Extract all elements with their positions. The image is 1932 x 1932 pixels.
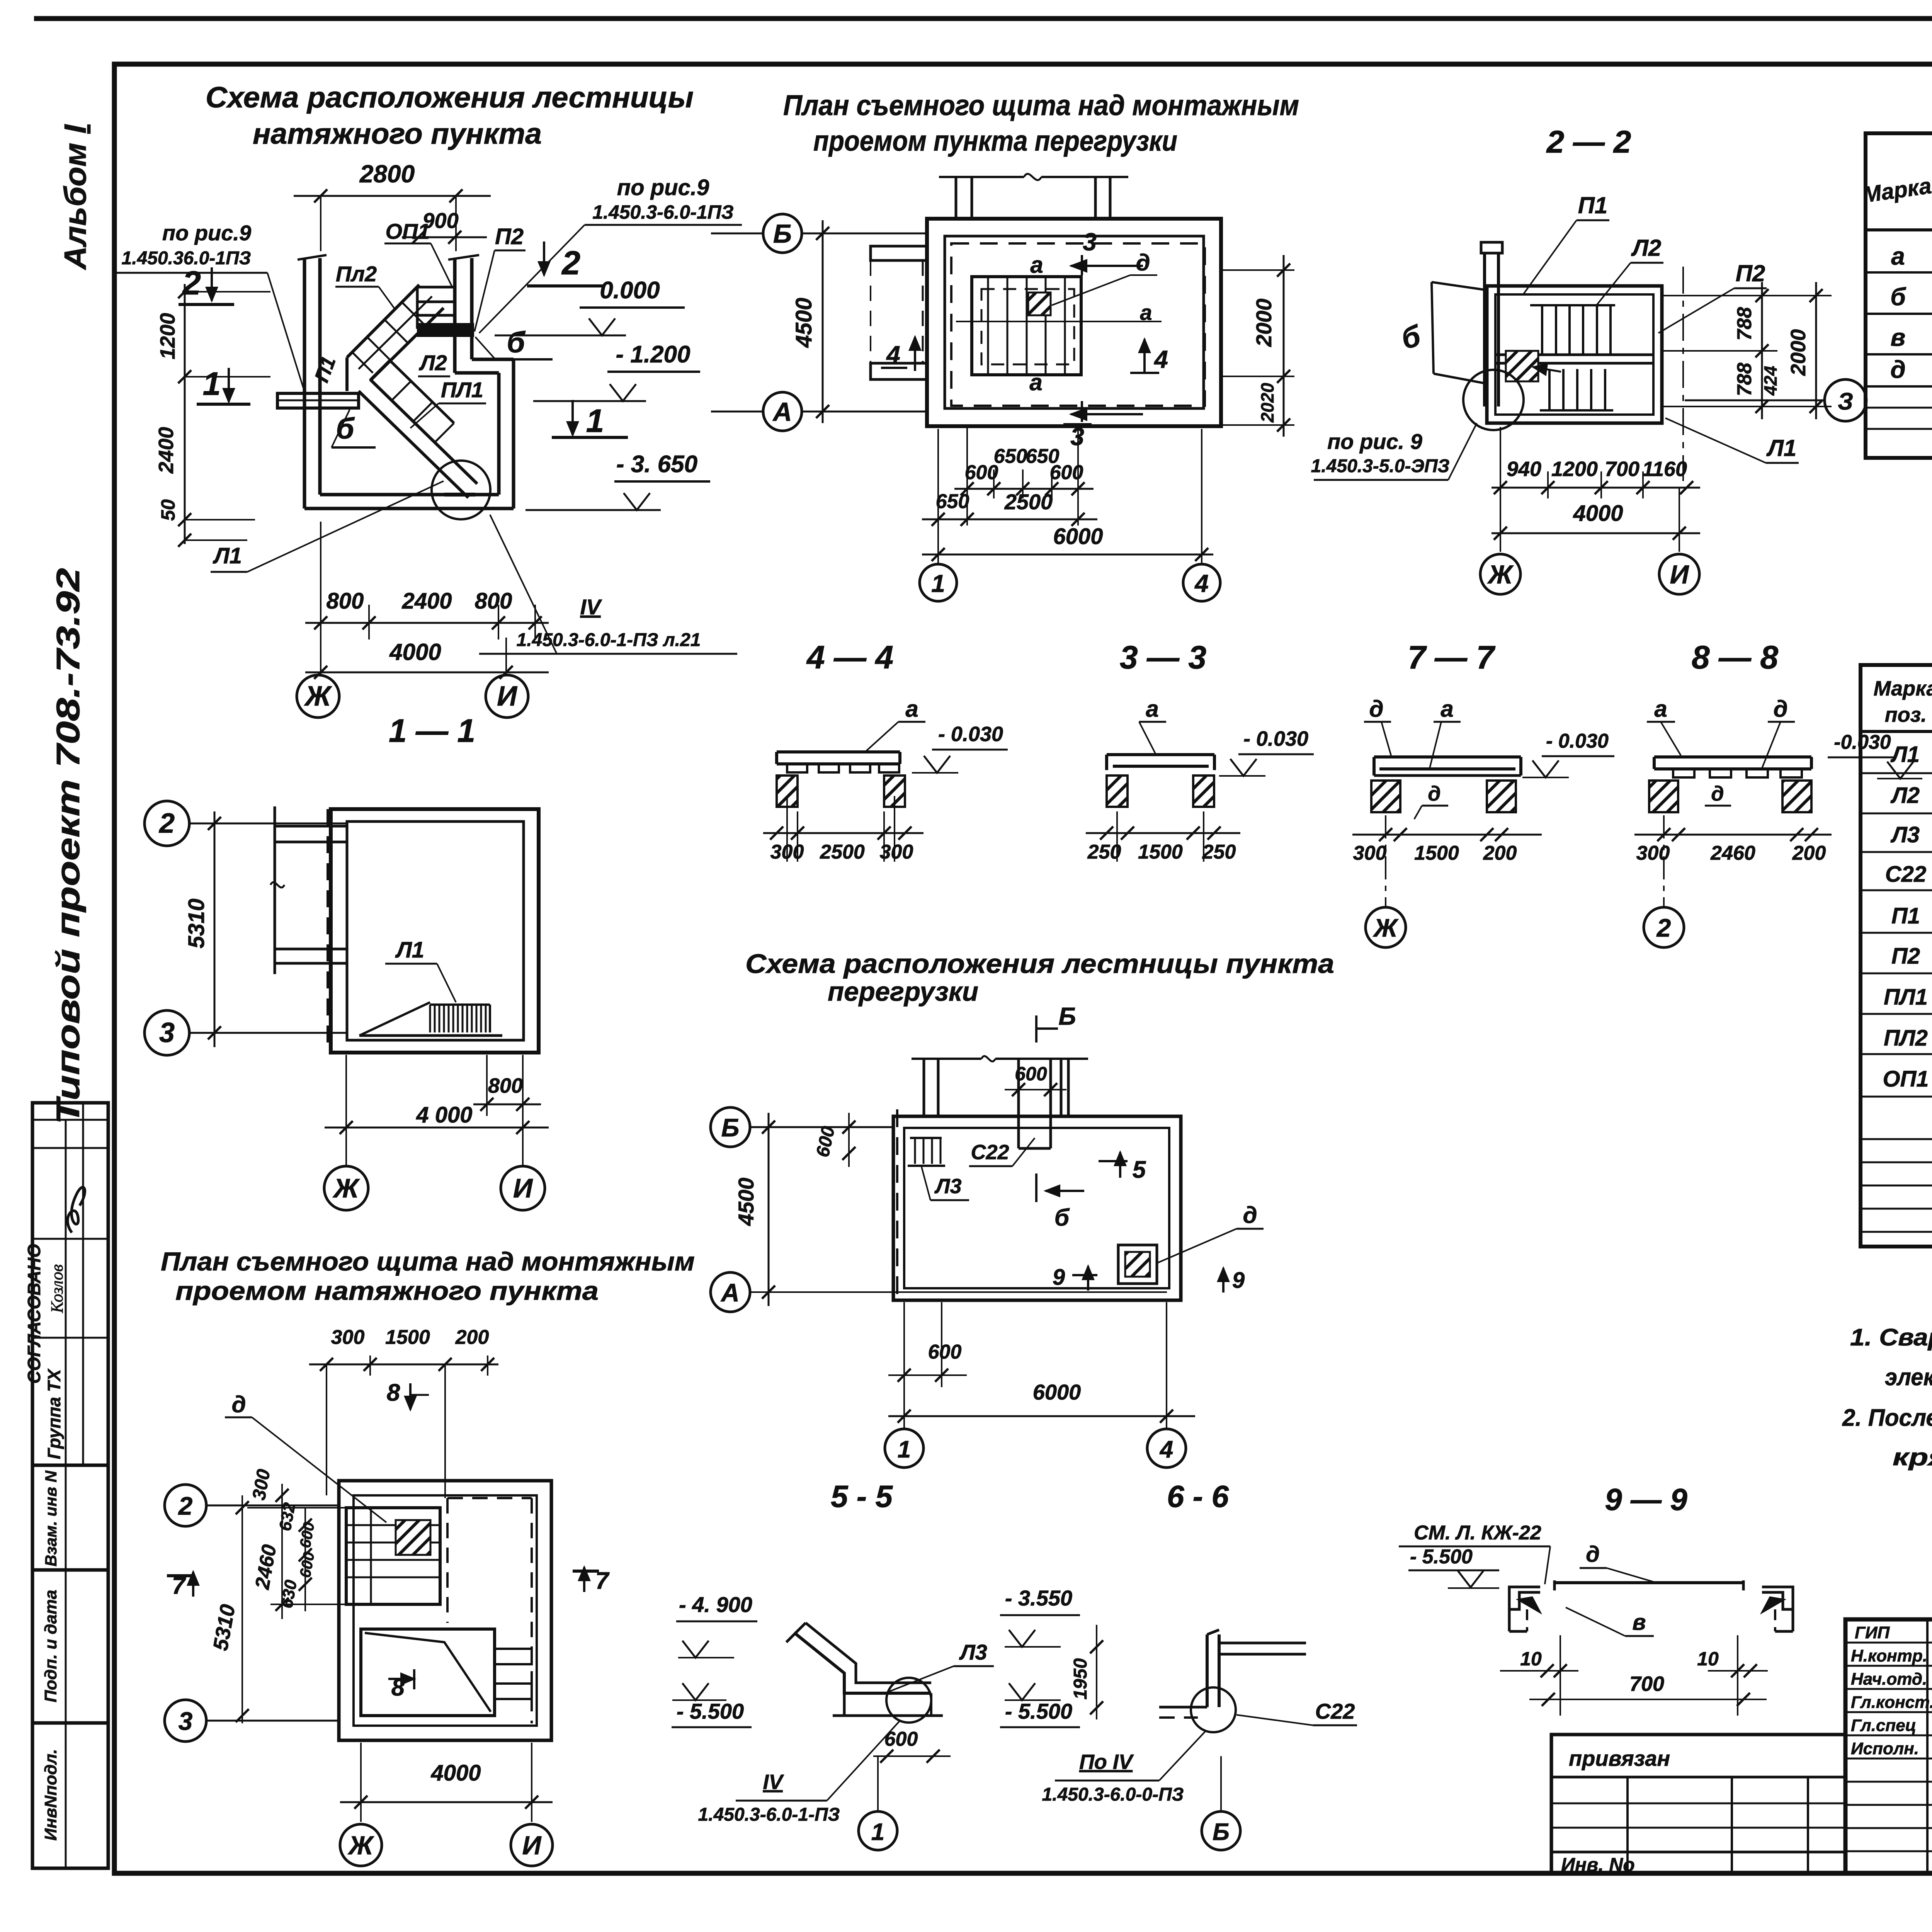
svg-text:IV: IV — [580, 595, 603, 619]
title block left rows — [1845, 1642, 1932, 1644]
table 1 frame — [1866, 133, 1932, 458]
svg-text:2020: 2020 — [1257, 383, 1277, 423]
5-5 detail drawing — [794, 1633, 931, 1693]
svg-text:Н.контр.: Н.контр. — [1851, 1646, 1927, 1665]
svg-text:перегрузки: перегрузки — [828, 976, 978, 1007]
svg-text:Нач.отд.: Нач.отд. — [1851, 1670, 1927, 1689]
svg-text:И: И — [497, 681, 518, 712]
svg-text:по рис.9: по рис.9 — [617, 175, 709, 200]
drawing C axis circle 4 — [1147, 1429, 1186, 1468]
svg-text:2000: 2000 — [1252, 299, 1276, 347]
dim 4500 left of plan — [822, 220, 824, 423]
9-9 right bracket support — [1762, 1587, 1793, 1609]
svg-text:- 5.500: - 5.500 — [677, 1699, 744, 1723]
svg-text:Л2: Л2 — [1631, 235, 1662, 261]
drawing C top columns — [923, 1060, 925, 1116]
svg-text:СМ. Л. КЖ-22: СМ. Л. КЖ-22 — [1414, 1522, 1541, 1544]
axis Б circle and line — [763, 214, 802, 253]
svg-text:Б: Б — [1058, 1002, 1076, 1030]
svg-text:проемом натяжного пункта: проемом натяжного пункта — [175, 1276, 599, 1306]
1-1 left appendage — [274, 806, 276, 974]
svg-text:ПЛ1: ПЛ1 — [441, 378, 483, 402]
svg-text:ГИП: ГИП — [1855, 1623, 1890, 1642]
plan B inner wall — [945, 236, 1204, 408]
drawing D axis circle 2 — [165, 1485, 206, 1526]
svg-text:250: 250 — [1202, 841, 1236, 863]
svg-text:7 — 7: 7 — 7 — [1408, 639, 1495, 675]
svg-text:а: а — [1029, 369, 1042, 395]
svg-text:План съемного щита над монтаж: План съемного щита над монтажным — [783, 89, 1299, 121]
svg-text:Альбом I: Альбом I — [58, 124, 92, 270]
axis circle З — [1825, 379, 1866, 421]
2-2 box outer — [1487, 286, 1662, 423]
svg-text:привязан: привязан — [1569, 1746, 1670, 1770]
svg-text:Ж: Ж — [1487, 560, 1514, 589]
6-6 axis circle Б — [1202, 1811, 1240, 1850]
svg-text:1200: 1200 — [1551, 457, 1598, 481]
svg-text:1950: 1950 — [1070, 1658, 1091, 1699]
svg-text:Л3: Л3 — [959, 1640, 987, 1664]
6-6 dim 1950 — [1096, 1625, 1097, 1719]
svg-text:Б: Б — [773, 219, 792, 248]
svg-text:а: а — [1146, 696, 1158, 722]
svg-text:в: в — [1891, 323, 1906, 351]
2-2 detail circle — [1463, 370, 1524, 430]
svg-text:д: д — [1890, 355, 1906, 383]
7-7 plate — [1374, 755, 1521, 759]
svg-text:Б: Б — [1213, 1819, 1230, 1845]
1-1 dim 5310 — [214, 811, 216, 1047]
svg-text:2: 2 — [178, 1492, 193, 1520]
axis circle И — [486, 675, 528, 718]
svg-text:а: а — [1140, 300, 1152, 325]
svg-text:СОГЛАСОВАНО: СОГЛАСОВАНО — [24, 1244, 44, 1384]
2-2 upper grate bars — [1530, 304, 1615, 306]
svg-text:3: 3 — [159, 1017, 175, 1048]
svg-text:6 - 6: 6 - 6 — [1167, 1479, 1229, 1514]
svg-text:Гл.конст.: Гл.конст. — [1851, 1693, 1932, 1712]
axis А circle and line — [763, 392, 802, 431]
drawing C inner wall — [904, 1128, 1169, 1288]
svg-text:поз.: поз. — [1885, 703, 1927, 726]
svg-text:4: 4 — [1194, 570, 1209, 597]
svg-text:4: 4 — [1159, 1436, 1173, 1463]
svg-text:- 3. 650: - 3. 650 — [616, 451, 697, 478]
svg-text:д: д — [1428, 782, 1440, 805]
svg-text:800: 800 — [475, 588, 512, 614]
dim 4000 bottom — [305, 672, 549, 673]
svg-text:Исполн.: Исполн. — [1851, 1739, 1919, 1758]
drawing C dashed left edge — [896, 1109, 898, 1300]
9-9 plate d — [1554, 1581, 1743, 1584]
detail callout circle IV — [432, 461, 490, 519]
svg-text:650: 650 — [936, 490, 969, 513]
drawing C ladder L3 — [910, 1137, 942, 1139]
drawing D upper panel — [346, 1508, 440, 1604]
svg-text:9: 9 — [1232, 1268, 1245, 1293]
7-7 axis circle Ж — [1366, 907, 1406, 947]
section mark 1 right — [571, 400, 574, 435]
svg-text:1: 1 — [586, 403, 604, 439]
svg-text:- 5.500: - 5.500 — [1410, 1546, 1473, 1568]
svg-text:а: а — [1654, 696, 1667, 722]
svg-text:А: А — [772, 397, 792, 427]
stair flight L2 with landing PL2 — [347, 285, 419, 357]
3-3 plate — [1107, 753, 1214, 756]
svg-text:1: 1 — [871, 1819, 884, 1845]
svg-text:Марка: Марка — [1874, 677, 1932, 700]
left strip: soglasovano block — [32, 1103, 108, 1465]
svg-text:Л1: Л1 — [395, 937, 424, 963]
svg-text:Ж: Ж — [347, 1831, 374, 1860]
svg-text:И: И — [522, 1831, 542, 1860]
svg-text:4: 4 — [1153, 345, 1168, 373]
drawing D hatch square — [396, 1520, 430, 1555]
svg-text:б: б — [1054, 1204, 1070, 1231]
svg-text:кряской зя 2 ряза.: кряской зя 2 ряза. — [1893, 1444, 1932, 1471]
section mark 2 right — [543, 241, 545, 275]
svg-text:1 — 1: 1 — 1 — [389, 713, 475, 749]
title block outer — [1845, 1619, 1932, 1873]
svg-text:а: а — [1440, 696, 1453, 722]
svg-text:Козлов: Козлов — [48, 1264, 66, 1313]
svg-text:- 4. 900: - 4. 900 — [679, 1592, 752, 1617]
svg-text:И: И — [1670, 560, 1690, 589]
drawing D axis circle И — [511, 1824, 553, 1866]
plan B central panel — [972, 277, 1081, 375]
svg-text:Л3: Л3 — [934, 1175, 961, 1198]
svg-text:700: 700 — [1605, 457, 1639, 481]
platform b at 0.000 — [418, 325, 473, 335]
svg-text:9 — 9: 9 — 9 — [1605, 1482, 1687, 1517]
1-1 stair comb — [359, 1034, 502, 1037]
svg-text:200: 200 — [455, 1326, 489, 1349]
svg-text:Л3: Л3 — [1890, 822, 1920, 847]
plan B outer wall — [927, 219, 1221, 426]
svg-text:д: д — [1711, 782, 1724, 805]
svg-text:2: 2 — [561, 245, 580, 282]
svg-text:300: 300 — [1636, 842, 1670, 864]
drawing C mark 6 — [1035, 1173, 1037, 1202]
svg-text:300: 300 — [770, 841, 804, 863]
svg-text:Гл.спец: Гл.спец — [1851, 1716, 1916, 1735]
drawing C axis А — [711, 1272, 750, 1312]
svg-text:ИнвNподл.: ИнвNподл. — [41, 1749, 60, 1840]
svg-text:З: З — [1838, 388, 1853, 415]
svg-text:д: д — [231, 1391, 246, 1417]
table 2 header — [1861, 730, 1932, 733]
svg-text:д: д — [1369, 696, 1383, 722]
2-2 door leaf — [1432, 282, 1434, 374]
svg-text:1: 1 — [931, 570, 945, 597]
stair flight L1 down to pit bottom — [359, 391, 468, 498]
svg-text:Л1: Л1 — [213, 543, 242, 568]
svg-text:1: 1 — [898, 1436, 911, 1463]
svg-text:50: 50 — [157, 499, 179, 521]
svg-text:1200: 1200 — [156, 313, 179, 359]
svg-text:4000: 4000 — [430, 1760, 481, 1786]
svg-text:788: 788 — [1733, 307, 1756, 341]
1-1 inner box — [347, 821, 524, 1040]
svg-text:600: 600 — [928, 1341, 962, 1363]
drawing D right tabs — [495, 1649, 532, 1664]
svg-text:П1: П1 — [1578, 192, 1608, 218]
2-2 left post — [1481, 242, 1502, 253]
svg-text:электродами типа Э-42. Высот: электродами типа Э-42. Высота шва 6 мм. — [1885, 1364, 1932, 1391]
svg-text:1500: 1500 — [385, 1326, 430, 1349]
svg-text:2400: 2400 — [155, 427, 178, 474]
8-8 supports — [1649, 781, 1678, 812]
9-9 left bracket support — [1509, 1587, 1540, 1609]
left strip: podp i data box — [32, 1570, 108, 1723]
svg-text:10: 10 — [1697, 1648, 1719, 1670]
drawing C axis Б — [711, 1107, 750, 1147]
svg-text:200: 200 — [1483, 842, 1517, 864]
svg-text:ПЛ1: ПЛ1 — [1884, 985, 1928, 1010]
svg-text:П1: П1 — [1891, 903, 1920, 929]
svg-text:600: 600 — [1015, 1063, 1047, 1085]
svg-text:4000: 4000 — [1573, 501, 1623, 526]
1-1 axis circle Ж — [324, 1166, 368, 1210]
axis circle 4 — [1183, 564, 1220, 601]
svg-text:д: д — [1243, 1202, 1257, 1228]
svg-text:План съемного щита над монтяжн: План съемного щита над монтяжным — [161, 1247, 695, 1276]
svg-text:Группа ТХ: Группа ТХ — [44, 1368, 64, 1459]
svg-text:2800: 2800 — [359, 160, 415, 188]
4-4 plate — [777, 750, 900, 753]
svg-text:200: 200 — [1792, 842, 1826, 864]
3-3 dims 250 1500 250 — [1116, 811, 1118, 862]
svg-text:2. После монтажа все метал: 2. После монтажа все металлоконструкции … — [1842, 1405, 1932, 1431]
svg-text:Ж: Ж — [1372, 913, 1399, 942]
svg-text:1500: 1500 — [1138, 841, 1183, 863]
svg-text:С22: С22 — [971, 1141, 1009, 1164]
svg-text:4 — 4: 4 — 4 — [806, 639, 893, 675]
svg-text:4 000: 4 000 — [416, 1102, 472, 1128]
svg-text:2400: 2400 — [401, 588, 452, 614]
svg-text:И: И — [513, 1173, 533, 1203]
svg-text:С22: С22 — [1315, 1699, 1355, 1723]
svg-text:ОП1: ОП1 — [1883, 1066, 1929, 1092]
svg-text:а: а — [1891, 242, 1905, 270]
svg-text:5 - 5: 5 - 5 — [831, 1479, 893, 1514]
svg-text:Подп. и дата: Подп. и дата — [41, 1590, 60, 1702]
svg-text:Инв. No: Инв. No — [1561, 1854, 1635, 1876]
4-4 supports hatched — [777, 776, 798, 807]
svg-text:Схема расположения лестницы: Схема расположения лестницы пункта — [745, 949, 1334, 979]
pit upper right wall — [453, 258, 457, 373]
svg-text:по рис. 9: по рис. 9 — [1327, 429, 1422, 454]
1-1 axis circle 3 — [145, 1010, 189, 1055]
svg-text:788: 788 — [1733, 363, 1756, 396]
plan B cut line a..a — [956, 321, 1162, 322]
privyazan box — [1551, 1735, 1845, 1873]
svg-text:5: 5 — [1133, 1156, 1146, 1183]
5-5 axis circle 1 — [859, 1811, 897, 1850]
svg-text:Л2: Л2 — [418, 350, 447, 375]
2-2 centerline — [1682, 267, 1684, 481]
svg-text:2: 2 — [158, 808, 175, 839]
svg-text:1.450.3-6.0-1-ПЗ л.21: 1.450.3-6.0-1-ПЗ л.21 — [517, 630, 701, 650]
left dim chain 1200 2400 50 — [184, 284, 186, 544]
plan B left ladder brackets — [871, 246, 927, 260]
2-2 hash square — [1506, 351, 1538, 381]
drawing C mark 5 — [1099, 1160, 1128, 1162]
svg-text:б: б — [1890, 283, 1906, 311]
pit right wall lower — [512, 359, 515, 509]
table 2 frame — [1861, 665, 1932, 1247]
svg-text:5310: 5310 — [184, 898, 209, 948]
svg-text:300: 300 — [331, 1326, 365, 1349]
left strip: vzam inv box — [32, 1465, 108, 1570]
8-8 axis circle 2 — [1644, 907, 1684, 947]
drawing D inner box — [354, 1495, 537, 1726]
svg-text:Пл2: Пл2 — [336, 262, 377, 286]
upper stair treads OP1 — [417, 286, 455, 289]
svg-text:700: 700 — [1629, 1672, 1664, 1696]
bottom dim chain 800 2400 800 — [305, 622, 549, 624]
svg-text:- 3.550: - 3.550 — [1005, 1586, 1072, 1610]
2-2 box inner — [1495, 294, 1653, 415]
svg-text:Типовой проект 708.-73.92: Типовой проект 708.-73.92 — [50, 568, 86, 1124]
svg-text:1.450.3-6.0-1-ПЗ: 1.450.3-6.0-1-ПЗ — [698, 1804, 840, 1825]
svg-text:Б: Б — [721, 1113, 740, 1142]
svg-text:б: б — [507, 326, 526, 359]
svg-text:д: д — [1586, 1542, 1600, 1567]
axis circle Ж — [297, 675, 339, 718]
plan B top columns — [955, 177, 957, 219]
5-5 small circle — [886, 1678, 931, 1723]
svg-text:2500: 2500 — [1004, 490, 1053, 514]
svg-text:2500: 2500 — [820, 841, 865, 863]
svg-text:- 0.030: - 0.030 — [1546, 730, 1609, 752]
svg-text:4: 4 — [886, 341, 900, 369]
drawing C hash square d — [1118, 1245, 1157, 1284]
svg-text:1. Сварку металлоконструкций: 1. Сварку металлоконструкций производить — [1850, 1324, 1932, 1351]
svg-text:4000: 4000 — [389, 639, 441, 665]
svg-text:250: 250 — [1087, 841, 1121, 863]
svg-text:в: в — [1632, 1610, 1646, 1635]
svg-text:800: 800 — [488, 1074, 523, 1097]
svg-text:П2: П2 — [495, 224, 524, 249]
pit step ledge — [472, 358, 514, 361]
drawing C dim 4500 — [768, 1113, 770, 1306]
left strip: inv N podl box — [32, 1723, 108, 1868]
svg-text:1.450.3-6.0-1ПЗ: 1.450.3-6.0-1ПЗ — [592, 201, 734, 223]
6-6 small circle — [1191, 1687, 1236, 1732]
svg-text:А: А — [720, 1278, 740, 1307]
svg-text:1.450.3-5.0-ЭПЗ: 1.450.3-5.0-ЭПЗ — [1311, 456, 1450, 476]
svg-text:- 5.500: - 5.500 — [1005, 1699, 1072, 1723]
svg-text:Л1: Л1 — [1890, 742, 1920, 767]
drawing C axis circle 1 — [885, 1429, 923, 1468]
svg-text:д: д — [1136, 250, 1150, 276]
8-8 plate — [1654, 755, 1811, 759]
svg-text:проемом пункта перегрузки: проемом пункта перегрузки — [813, 125, 1177, 157]
table 2 row lines — [1861, 772, 1932, 774]
drawing D axis circle 3 — [165, 1700, 206, 1742]
svg-text:Л2: Л2 — [1890, 783, 1920, 808]
svg-text:2460: 2460 — [1710, 842, 1755, 864]
svg-text:Ж: Ж — [333, 1173, 361, 1203]
svg-text:а: а — [1030, 252, 1043, 278]
svg-text:6000: 6000 — [1033, 1380, 1081, 1404]
svg-text:424: 424 — [1760, 366, 1781, 396]
svg-text:2: 2 — [1656, 913, 1671, 942]
svg-text:-0.030: -0.030 — [1834, 731, 1891, 753]
svg-text:Л1: Л1 — [1766, 435, 1797, 461]
svg-text:Взам. инв N: Взам. инв N — [42, 1470, 60, 1566]
svg-text:8 — 8: 8 — 8 — [1692, 639, 1778, 675]
1-1 axis circle И — [501, 1166, 545, 1210]
svg-text:2 — 2: 2 — 2 — [1546, 124, 1631, 160]
drawing D outer box — [339, 1481, 551, 1740]
1-1 outer box — [331, 809, 539, 1053]
svg-text:- 0.030: - 0.030 — [1243, 727, 1308, 750]
svg-text:3: 3 — [179, 1707, 193, 1735]
svg-text:3 — 3: 3 — 3 — [1120, 639, 1206, 675]
plan B dashed opening — [951, 243, 1205, 406]
svg-text:2000: 2000 — [1787, 329, 1810, 376]
svg-text:650: 650 — [994, 445, 1027, 468]
svg-text:ПЛ2: ПЛ2 — [1884, 1026, 1928, 1051]
axis circle И (2-2) — [1659, 554, 1699, 594]
7-7 supports — [1371, 781, 1400, 812]
section mark 3 bottom — [1081, 401, 1083, 422]
svg-text:4500: 4500 — [734, 1178, 758, 1226]
svg-text:9: 9 — [1053, 1265, 1065, 1290]
drawing C outer wall — [893, 1116, 1181, 1300]
3-3 supports — [1107, 776, 1128, 807]
4-4 dims 300 2500 300 — [786, 796, 788, 862]
2-2 middle platform — [1495, 354, 1653, 356]
pit left wall — [303, 258, 306, 509]
svg-text:300: 300 — [1353, 842, 1387, 864]
svg-text:- 0.030: - 0.030 — [938, 723, 1003, 746]
svg-text:4500: 4500 — [791, 298, 816, 348]
svg-text:ОП1: ОП1 — [386, 219, 430, 243]
6-6 detail drawing — [1206, 1634, 1209, 1707]
drawing D axis circle Ж — [340, 1824, 382, 1866]
drawing D dashed opening — [447, 1497, 532, 1499]
sheet top edge line — [34, 16, 1932, 21]
plan B hatch square — [1028, 293, 1051, 315]
svg-text:а: а — [905, 696, 918, 722]
svg-text:1500: 1500 — [1414, 842, 1459, 864]
2-2 lower bars — [1548, 369, 1551, 410]
plan B right dims 2000 2020 — [1221, 269, 1294, 271]
svg-text:Ж: Ж — [304, 681, 332, 712]
svg-text:1: 1 — [203, 366, 221, 402]
svg-text:6000: 6000 — [1053, 524, 1103, 549]
1-1 axis circle 2 — [145, 801, 189, 846]
drawing D lower room — [361, 1629, 495, 1716]
svg-text:1160: 1160 — [1642, 457, 1687, 481]
svg-text:8: 8 — [387, 1379, 400, 1406]
svg-text:по рис.9: по рис.9 — [162, 221, 251, 245]
svg-text:П2: П2 — [1891, 944, 1920, 969]
svg-text:1.450.3-6.0-0-ПЗ: 1.450.3-6.0-0-ПЗ — [1042, 1784, 1184, 1805]
svg-text:По IV: По IV — [1079, 1750, 1134, 1774]
svg-text:Схема расположения лестницы: Схема расположения лестницы — [206, 81, 694, 114]
axis circle 1 — [920, 564, 957, 601]
svg-text:10: 10 — [1520, 1648, 1542, 1670]
svg-text:0.000: 0.000 — [600, 277, 660, 304]
svg-text:940: 940 — [1507, 457, 1541, 481]
pit bottom slab — [304, 507, 514, 510]
platform P1 at -1.200 — [277, 393, 359, 408]
svg-text:300: 300 — [880, 841, 913, 863]
